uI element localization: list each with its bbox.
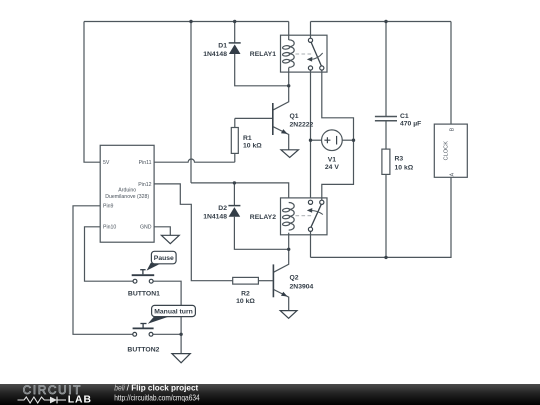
wire R1 top lead <box>234 118 236 127</box>
node D2-coil <box>287 248 290 251</box>
svg-text:Duemilanove (328): Duemilanove (328) <box>105 194 149 200</box>
relay2 switch arm <box>311 204 321 227</box>
svg-text:Arduino: Arduino <box>118 187 136 193</box>
svg-text:Flip clock project: Flip clock project <box>131 382 198 392</box>
svg-text:Pin10: Pin10 <box>103 225 116 231</box>
callout Manual turn <box>148 305 196 323</box>
svg-text:Pin12: Pin12 <box>138 182 151 188</box>
wire V1 left lead <box>311 139 322 141</box>
svg-text:http://circuitlab.com/cmqa634: http://circuitlab.com/cmqa634 <box>114 392 200 402</box>
svg-text:5V: 5V <box>103 160 110 166</box>
svg-text:R1: R1 <box>243 135 252 142</box>
ground Q1 emitter <box>281 150 298 158</box>
diode D1 <box>203 42 241 58</box>
wire arduino GND lead <box>154 227 171 236</box>
wire D1 cathode lead <box>234 22 236 43</box>
wire V1 right lead <box>342 139 353 141</box>
svg-text:Q1: Q1 <box>290 113 299 120</box>
wire Q2 collector lead <box>273 249 288 272</box>
svg-text:CLOCK: CLOCK <box>444 141 450 161</box>
wire Q1 base wire <box>235 117 272 119</box>
wire D2 cathode lead <box>233 183 235 206</box>
relay RELAY2 <box>250 198 327 235</box>
svg-text:Q2: Q2 <box>290 274 299 281</box>
wire D1 anode join <box>235 54 289 86</box>
svg-text:Pin9: Pin9 <box>103 204 113 210</box>
wire clock top lead <box>450 22 452 125</box>
svg-text:C1: C1 <box>400 113 409 120</box>
wire Q2 base wire <box>258 280 272 282</box>
node V1-left <box>309 139 312 142</box>
svg-text:A: A <box>449 172 455 176</box>
callout Pause <box>147 251 176 270</box>
svg-text:B: B <box>449 127 455 131</box>
relay2 contact top-right <box>320 200 324 204</box>
pushbutton BUTTON2 <box>127 324 159 354</box>
svg-text:RELAY2: RELAY2 <box>250 214 276 221</box>
relay2 dashed actuation line <box>296 215 314 217</box>
wire top rail right <box>311 21 452 23</box>
relay2 arrow <box>311 211 323 215</box>
resistor R3 <box>382 149 414 174</box>
svg-text:Pause: Pause <box>154 255 174 262</box>
svg-text:BUTTON1: BUTTON1 <box>128 291 160 298</box>
wire top rail left <box>84 21 289 23</box>
arduino U1 <box>100 145 154 242</box>
wire relay1 common top lead <box>310 22 312 39</box>
svg-text:V1: V1 <box>328 157 337 164</box>
node rail-C1 <box>384 20 387 23</box>
node bottomrail-R3 <box>384 256 387 259</box>
svg-text:D1: D1 <box>218 42 227 49</box>
wire R1 bottom lead <box>234 153 236 162</box>
wire relay1 coil top lead <box>288 22 290 41</box>
wire D2 anode join <box>234 217 288 250</box>
node D2-net <box>233 181 236 184</box>
relay1 dashed actuation line <box>296 53 314 55</box>
svg-text:R3: R3 <box>395 155 404 162</box>
relay2 common bottom contact <box>308 227 312 231</box>
wire R3 bottom lead <box>385 174 387 257</box>
svg-text:470 µF: 470 µF <box>400 121 421 128</box>
ground Q2 emitter <box>280 311 297 319</box>
wire Pin9 to button2 <box>73 206 133 334</box>
relay1 common contact <box>308 38 312 42</box>
svg-text:GND: GND <box>140 225 152 231</box>
wire Pin10 to button1 <box>85 227 134 281</box>
relay1 NO contact <box>320 66 324 70</box>
resistor R1 <box>231 128 262 154</box>
wire relay2 common bottom lead <box>310 231 312 257</box>
wire Pin12 to R2 <box>154 184 233 281</box>
wire relay1 coil bottom lead <box>288 68 290 86</box>
svg-text:LAB: LAB <box>68 395 92 405</box>
capacitor C1 <box>375 113 421 128</box>
wire node to relay2 coil <box>191 183 289 198</box>
svg-text:10 kΩ: 10 kΩ <box>243 142 262 149</box>
svg-text:24 V: 24 V <box>325 164 339 171</box>
node V1-right <box>352 139 355 142</box>
wire relay1 NC to relay2 vertical <box>310 70 312 198</box>
node rail-191 <box>189 20 192 23</box>
svg-text:1N4148: 1N4148 <box>203 213 227 220</box>
wire left outer vertical to 5V <box>84 22 100 163</box>
svg-text:Pin11: Pin11 <box>139 160 152 166</box>
svg-text:1N4148: 1N4148 <box>203 51 227 58</box>
node D1-coil <box>287 84 290 87</box>
transistor Q1 <box>273 103 314 135</box>
wire Pin11 row with hop <box>154 159 235 162</box>
node rail-D1 <box>233 20 236 23</box>
svg-text:RELAY1: RELAY1 <box>250 51 276 58</box>
relay1 arrow <box>311 53 323 59</box>
logo emblem resistor+diode <box>18 397 51 403</box>
wire button1 right to ground <box>153 281 181 334</box>
wire relay2 coil bottom lead <box>288 233 290 250</box>
svg-text:Manual turn: Manual turn <box>154 309 193 316</box>
wire C1 top lead <box>385 22 387 117</box>
diode D2 <box>203 205 240 220</box>
svg-text:2N3904: 2N3904 <box>290 283 314 290</box>
svg-text:D2: D2 <box>218 205 227 212</box>
relay1 switch arm <box>311 42 321 66</box>
resistor R2 <box>233 277 259 305</box>
wire Q1 collector lead <box>273 86 288 110</box>
relay2 contact top-left <box>308 200 312 204</box>
wire C1 to R3 <box>385 121 387 149</box>
wire bottom rail <box>311 177 452 257</box>
wire Q2 emitter lead <box>273 289 288 310</box>
wire button2 right to ground <box>153 334 181 353</box>
ground arduino GND <box>161 235 179 243</box>
node button2-gnd <box>179 333 182 336</box>
pushbutton BUTTON1 <box>128 270 160 298</box>
svg-text:BUTTON2: BUTTON2 <box>127 346 159 353</box>
transistor Q2 <box>273 264 313 297</box>
relay1 coil <box>289 40 294 68</box>
relay2 coil <box>289 203 294 231</box>
voltage source V1 <box>322 130 343 171</box>
relay1 NC contact <box>308 66 312 70</box>
svg-text:beli: beli <box>114 382 125 392</box>
clock module <box>434 124 467 177</box>
wire rail drop to node x191 <box>190 22 192 183</box>
wire Q1 emitter lead <box>273 127 288 150</box>
svg-text:10 kΩ: 10 kΩ <box>236 298 255 305</box>
wire relay1 NO to V1 right <box>322 70 354 200</box>
svg-text:R2: R2 <box>241 291 250 298</box>
ground buttons <box>172 354 190 363</box>
svg-text:2N2222: 2N2222 <box>290 121 314 128</box>
relay RELAY1 <box>250 35 327 72</box>
svg-text:10 kΩ: 10 kΩ <box>395 165 414 172</box>
